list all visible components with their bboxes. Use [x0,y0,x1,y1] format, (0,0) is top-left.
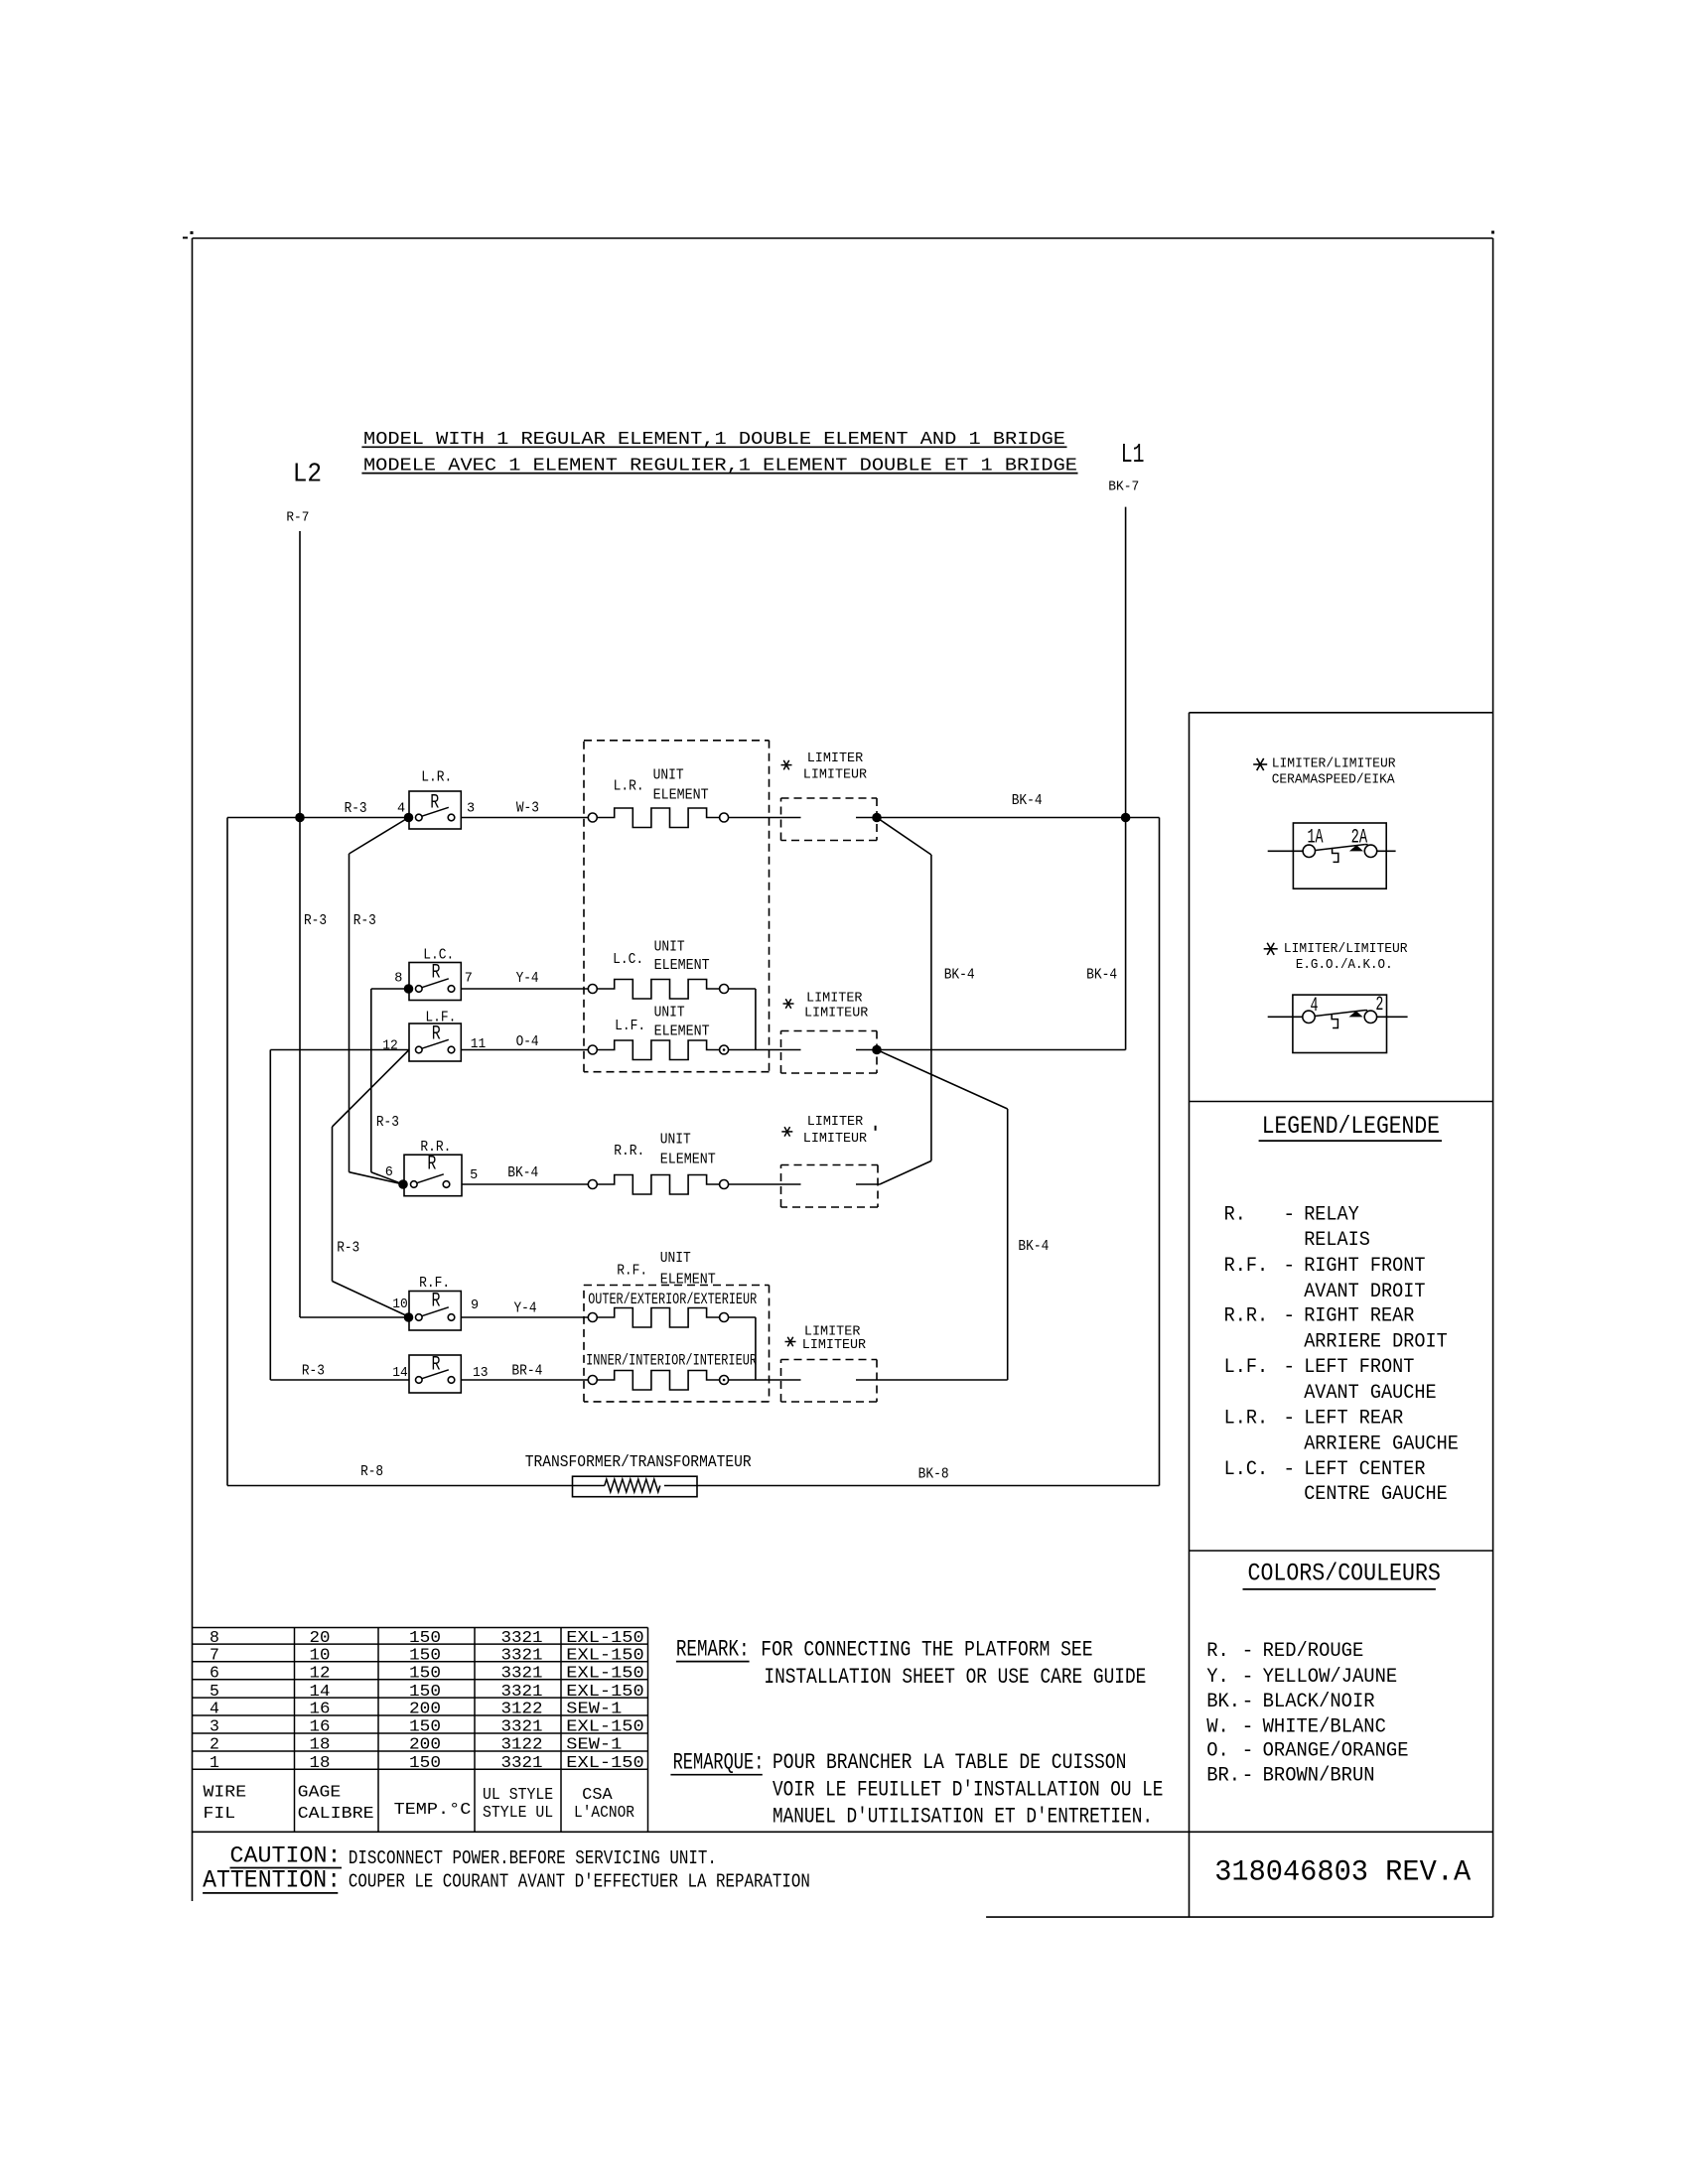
wire Y-4 row2 [461,988,588,990]
svg-text:Y-4: Y-4 [514,1300,537,1317]
wire BK-8 right [664,1485,1160,1487]
wire row6 left R-3 [270,1379,409,1381]
svg-text:150: 150 [409,1646,441,1665]
wire R-3 row1 relay to RR (diagonal+vertical) [350,818,409,1185]
svg-text:150: 150 [409,1664,441,1683]
svg-text:LIMITEUR: LIMITEUR [804,1006,869,1022]
pin 12 [382,1038,398,1053]
label R.F. relay [419,1275,450,1292]
svg-text:BK-4: BK-4 [944,967,975,984]
legend entry LEFT FRONT [1224,1356,1415,1379]
svg-text:L'ACNOR: L'ACNOR [574,1803,634,1822]
svg-text:BK-4: BK-4 [1086,967,1117,984]
svg-text:4: 4 [397,802,405,817]
svg-text:7: 7 [210,1646,219,1665]
label LIMITEUR row1 [803,766,868,782]
svg-text:R: R [432,1290,441,1312]
wire row1 left (R-3) [227,817,409,819]
label R in R.R. relay [427,1154,436,1176]
svg-text:R-3: R-3 [304,912,327,929]
svg-text:UNIT: UNIT [654,1005,685,1022]
svg-text:R: R [432,1354,441,1377]
wire right outer loop BK-8 side [1159,818,1161,1486]
label UNIT row3 [654,1005,685,1022]
label LIMITER/LIMITEUR fig1 [1272,756,1396,772]
label L.R. element [614,778,644,795]
svg-text:150: 150 [409,1628,441,1647]
wire label O-4 [516,1033,539,1050]
svg-text:O.: O. [1206,1740,1229,1763]
wire row2 feed (from LC dot down to RR) [371,989,409,1184]
tick mark row4 [875,1126,877,1131]
wire label Y-4 row2 [516,970,539,987]
remark text fr 2 [773,1777,1163,1803]
svg-text:10: 10 [392,1297,408,1312]
table row wire 4 [210,1700,622,1718]
svg-text:6: 6 [210,1664,219,1683]
limiter symbol fig1 [1268,823,1396,888]
pin 2 fig2 [1375,994,1383,1017]
table row wire 2 [210,1735,622,1754]
svg-text:-: - [1242,1740,1254,1763]
wire label R-3 row1 [345,800,367,817]
svg-text:LIMITER: LIMITER [806,990,863,1006]
svg-text:5: 5 [470,1168,478,1183]
wire label BK-8 [918,1466,949,1483]
svg-text:CENTRE GAUCHE: CENTRE GAUCHE [1304,1483,1448,1506]
svg-text:LEGEND/LEGENDE: LEGEND/LEGENDE [1262,1112,1440,1141]
pin 14 [392,1366,408,1381]
label LIMITER/LIMITEUR fig2 [1284,941,1408,957]
svg-text:L.R.: L.R. [1224,1408,1269,1431]
svg-text:3321: 3321 [501,1646,543,1665]
svg-text:BK-4: BK-4 [1018,1238,1049,1255]
svg-text:200: 200 [409,1735,441,1754]
label OUTER/EXTERIOR/EXTERIEUR [588,1291,757,1308]
svg-text:L.F.: L.F. [615,1018,645,1034]
svg-text:W-3: W-3 [516,800,539,817]
svg-text:COLORS/COULEURS: COLORS/COULEURS [1248,1559,1441,1587]
svg-text:1A: 1A [1308,827,1324,850]
legend entry ARRIERE GAUCHE [1304,1433,1459,1455]
label R in R.F. inner relay [432,1354,441,1377]
svg-text:LIMITEUR: LIMITEUR [803,766,868,782]
table header [204,1782,635,1823]
asterisk fig1 [1253,758,1267,770]
label UNIT row2 [654,938,685,955]
svg-text:-: - [1283,1255,1295,1278]
svg-text:R-3: R-3 [337,1240,359,1257]
svg-text:4: 4 [210,1700,219,1718]
svg-text:18: 18 [310,1735,331,1754]
svg-text:BK-4: BK-4 [1012,792,1043,809]
svg-text:R.R.: R.R. [614,1143,644,1160]
svg-text:L2: L2 [293,460,322,489]
remark text en 2 [764,1664,1146,1690]
label ELEMENT row3 [654,1023,710,1039]
remark text en 1 [761,1637,1092,1663]
label REMARQUE [670,1750,764,1777]
caution text en [349,1847,717,1869]
label CERAMASPEED/EIKA [1272,772,1395,788]
wire row3 left [270,1050,409,1381]
svg-text:R.: R. [1224,1204,1246,1227]
svg-text:CAUTION:: CAUTION: [230,1843,342,1869]
svg-text:EXL-150: EXL-150 [566,1717,643,1736]
svg-text:MANUEL D'UTILISATION ET D'ENTR: MANUEL D'UTILISATION ET D'ENTRETIEN. [773,1804,1153,1830]
label UNIT row5 [660,1250,691,1267]
limiter row3 (dashed) [781,1031,878,1074]
svg-text:-: - [1242,1765,1254,1788]
svg-text:INNER/INTERIOR/INTERIEUR: INNER/INTERIOR/INTERIEUR [586,1352,757,1370]
dashed box element RF [584,1286,770,1402]
svg-text:R.R.: R.R. [1224,1305,1269,1328]
right panel frame [1190,713,1493,1917]
wire label Y-4 row5 [514,1300,537,1317]
title line 1 [361,429,1066,450]
wire R-8 left [227,1485,605,1487]
heating element L.R. [588,808,728,828]
panel divider colors [1190,1550,1493,1552]
svg-text:L.R.: L.R. [614,778,644,795]
svg-text:RELAIS: RELAIS [1304,1229,1370,1252]
svg-text:EXL-150: EXL-150 [566,1753,643,1772]
relay L.C. [404,963,462,1001]
svg-text:ELEMENT: ELEMENT [654,1023,710,1039]
svg-text:-: - [1283,1356,1295,1379]
pin 5 [470,1168,478,1183]
label TRANSFORMER/TRANSFORMATEUR [525,1452,752,1471]
svg-text:TRANSFORMER/TRANSFORMATEUR: TRANSFORMER/TRANSFORMATEUR [525,1452,752,1471]
svg-text:BK.: BK. [1206,1691,1240,1713]
wire label BR-4 [511,1363,542,1380]
pin 4 fig2 [1311,995,1319,1018]
table row wire 5 [210,1682,644,1701]
svg-text:REMARK:: REMARK: [676,1637,750,1664]
svg-text:AVANT DROIT: AVANT DROIT [1304,1281,1425,1303]
label R in L.F. relay [432,1023,441,1045]
dashed box elements LR/LC/LF [584,741,770,1072]
wire label R-7 [286,510,309,525]
wire element to limiter row3 [729,1049,801,1051]
limiter row6 (dashed) [781,1360,878,1403]
pin 7 [465,971,473,986]
svg-text:3321: 3321 [501,1682,543,1701]
label ELEMENT row4 [660,1152,716,1168]
svg-text:4: 4 [1311,995,1319,1018]
label LIMITEUR row3 [804,1006,869,1022]
svg-text:LIMITER/LIMITEUR: LIMITER/LIMITEUR [1284,941,1408,957]
asterisk fig2 [1264,943,1278,955]
label L.R. relay [421,769,452,786]
pin 10 [392,1297,408,1312]
wire label BK-4 drop2 [1018,1238,1049,1255]
svg-text:9: 9 [471,1298,479,1313]
svg-text:FOR CONNECTING THE PLATFORM SE: FOR CONNECTING THE PLATFORM SEE [761,1637,1092,1663]
svg-text:R: R [430,791,439,814]
asterisk row6 [785,1337,796,1347]
label R in L.C. relay [432,961,441,984]
svg-text:ARRIERE GAUCHE: ARRIERE GAUCHE [1304,1433,1459,1455]
wire label BK-4 row4 [507,1164,538,1181]
svg-text:YELLOW/JAUNE: YELLOW/JAUNE [1263,1666,1398,1689]
svg-text:R.: R. [1206,1640,1229,1663]
pin 1A [1308,827,1324,850]
legend entry AVANT GAUCHE [1304,1382,1436,1405]
junction row1 @L1 bus [1121,813,1131,823]
svg-text:RED/ROUGE: RED/ROUGE [1263,1640,1364,1663]
label ELEMENT row5 [660,1271,716,1288]
svg-text:LIMITEUR: LIMITEUR [802,1337,867,1353]
label R.F. element [617,1263,647,1280]
svg-text:3: 3 [210,1717,219,1736]
wire label R-3 left bus [304,912,327,929]
label R in R.F. relay [432,1290,441,1312]
svg-text:STYLE UL: STYLE UL [483,1803,553,1822]
svg-text:Y.: Y. [1206,1666,1229,1689]
svg-text:E.G.O./A.K.O.: E.G.O./A.K.O. [1296,957,1393,973]
svg-text:-: - [1242,1715,1254,1738]
label L.F. relay [425,1010,456,1026]
panel divider legend [1190,1101,1493,1103]
label R.R. relay [420,1139,451,1156]
wire left outer loop R-8 side [226,818,228,1486]
wire O-4 row3 [461,1049,588,1051]
svg-text:LIMITER: LIMITER [807,751,864,766]
svg-text:LIMITER/LIMITEUR: LIMITER/LIMITEUR [1272,756,1396,772]
heating element L.C. [588,980,728,1000]
limiter row4 (dashed) [781,1165,881,1208]
svg-text:10: 10 [310,1646,331,1665]
svg-text:14: 14 [310,1682,331,1701]
label LIMITER row6 [804,1323,861,1339]
table row wire 7 [210,1646,644,1665]
junction row1 @L2 bus [295,813,305,823]
svg-text:-: - [1242,1691,1254,1713]
relay L.R. [404,791,462,829]
svg-text:R-3: R-3 [376,1114,399,1131]
svg-text:318046803 REV.A: 318046803 REV.A [1214,1855,1471,1889]
wire gauge table [193,1628,648,1833]
svg-text:3321: 3321 [501,1753,543,1772]
svg-text:R: R [432,1023,441,1045]
svg-text:L.F.: L.F. [1224,1356,1269,1379]
relay R.F. [404,1292,462,1331]
svg-text:ELEMENT: ELEMENT [660,1152,716,1168]
svg-text:6: 6 [385,1165,393,1180]
legend entry RIGHT REAR [1224,1305,1415,1328]
transformer [573,1476,698,1497]
label R in L.R. relay [430,791,439,814]
svg-text:16: 16 [310,1717,331,1736]
label REMARK [676,1637,750,1664]
svg-text:CERAMASPEED/EIKA: CERAMASPEED/EIKA [1272,772,1395,788]
svg-text:-: - [1242,1640,1254,1663]
wire BR-4 [461,1379,588,1381]
border frame [183,231,1494,1918]
node L1 [1121,441,1145,471]
svg-text:2A: 2A [1351,827,1368,850]
svg-text:DISCONNECT POWER.BEFORE SERVIC: DISCONNECT POWER.BEFORE SERVICING UNIT. [349,1847,717,1869]
svg-text:LEFT CENTER: LEFT CENTER [1304,1458,1425,1481]
svg-text:UNIT: UNIT [660,1250,691,1267]
svg-text:150: 150 [409,1717,441,1736]
svg-text:BK-8: BK-8 [918,1466,949,1483]
wire label BK-7 [1108,479,1139,494]
svg-text:Y-4: Y-4 [516,970,539,987]
svg-text:REMARQUE:: REMARQUE: [673,1750,765,1777]
svg-text:-: - [1283,1458,1295,1481]
svg-text:L1: L1 [1121,441,1145,471]
node L2 [293,460,322,489]
svg-text:-: - [1283,1204,1295,1227]
svg-text:EXL-150: EXL-150 [566,1628,643,1647]
wire W-3 [461,817,588,819]
svg-text:L.F.: L.F. [425,1010,456,1026]
svg-text:WHITE/BLANC: WHITE/BLANC [1263,1715,1386,1738]
svg-text:8: 8 [394,971,402,986]
svg-text:UNIT: UNIT [654,938,685,955]
svg-text:BLACK/NOIR: BLACK/NOIR [1263,1691,1375,1713]
wire label R-3 mid bus [353,912,376,929]
limiter symbol fig2 [1268,995,1408,1052]
pin 2A [1351,827,1368,850]
svg-text:3122: 3122 [501,1735,543,1754]
wire LC element out to LF join [729,989,756,1050]
svg-text:R-3: R-3 [302,1363,325,1380]
svg-text:UNIT: UNIT [653,766,684,783]
wire label BK-4 @L1 [1086,967,1117,984]
asterisk row4 [781,1127,792,1137]
label ELEMENT row2 [654,957,710,974]
legend entry RELAY [1224,1204,1359,1227]
remark text fr 3 [773,1804,1153,1830]
svg-text:UNIT: UNIT [660,1132,691,1149]
svg-text:OUTER/EXTERIOR/EXTERIEUR: OUTER/EXTERIOR/EXTERIEUR [588,1291,757,1308]
table row wire 8 [210,1628,644,1647]
wire row3 to L1 corner [877,1049,1126,1051]
label LIMITER row1 [807,751,864,766]
wire BK-4 row4 [462,1183,588,1185]
svg-text:BK-7: BK-7 [1108,479,1139,494]
wire RF outer to inner join [729,1317,756,1380]
svg-text:EXL-150: EXL-150 [566,1646,643,1665]
svg-text:R.F.: R.F. [419,1275,450,1292]
label L.F. element [615,1018,645,1034]
pin 13 [473,1366,489,1381]
svg-text:150: 150 [409,1682,441,1701]
label INNER/INTERIOR/INTERIEUR [586,1352,757,1370]
title line 2 [361,455,1077,476]
remark text fr 1 [773,1749,1126,1775]
svg-text:POUR BRANCHER LA TABLE DE CUIS: POUR BRANCHER LA TABLE DE CUISSON [773,1749,1126,1775]
svg-text:AVANT GAUCHE: AVANT GAUCHE [1304,1382,1436,1405]
limiter row1 (dashed) [781,798,878,841]
svg-text:2: 2 [210,1735,219,1754]
svg-text:LEFT REAR: LEFT REAR [1304,1408,1403,1431]
wire element to limiter row4 [729,1183,801,1185]
color entry WHITE/BLANC [1206,1715,1386,1738]
wire L1/BK-7 bus [1125,507,1127,1050]
svg-text:RIGHT FRONT: RIGHT FRONT [1304,1255,1425,1278]
label UNIT row4 [660,1132,691,1149]
color entry BLACK/NOIR [1206,1691,1374,1713]
svg-text:ELEMENT: ELEMENT [654,957,710,974]
svg-text:7: 7 [465,971,473,986]
legend entry RELAIS [1304,1229,1370,1252]
svg-text:COUPER LE COURANT AVANT D'EFFE: COUPER LE COURANT AVANT D'EFFECTUER LA R… [349,1871,810,1893]
svg-text:150: 150 [409,1753,441,1772]
heating element R.F. inner [588,1371,728,1391]
svg-text:R.F.: R.F. [1224,1255,1269,1278]
svg-text:GAGE: GAGE [298,1782,342,1801]
wire label BK-4 row1 [1012,792,1043,809]
wire label R-3 x335 [337,1240,359,1257]
svg-text:ATTENTION:: ATTENTION: [203,1866,341,1895]
svg-text:L.C.: L.C. [1224,1458,1269,1481]
svg-text:LEFT FRONT: LEFT FRONT [1304,1356,1414,1379]
svg-text:TEMP.°C: TEMP.°C [394,1800,472,1819]
label COLORS/COULEURS [1243,1559,1441,1589]
pin 8 [394,971,402,986]
label E.G.O./A.K.O. [1296,957,1393,973]
svg-text:8: 8 [210,1628,219,1647]
svg-text:20: 20 [310,1628,331,1647]
wire BK-4 drop to RF inner limiter [877,1050,1008,1381]
legend entry CENTRE GAUCHE [1304,1483,1448,1506]
svg-text:CSA: CSA [582,1785,613,1804]
junction row3 limiter out [872,1045,882,1055]
asterisk row3 [783,999,794,1009]
svg-text:R-7: R-7 [286,510,309,525]
label ATTENTION [203,1866,341,1895]
label LIMITER row3 [806,990,863,1006]
wire label R-8 [360,1463,383,1480]
wire element to limiter row6 [729,1379,801,1381]
legend entry ARRIERE DROIT [1304,1330,1448,1353]
svg-text:L.C.: L.C. [613,951,643,968]
svg-text:18: 18 [310,1753,331,1772]
svg-text:12: 12 [382,1038,398,1053]
label LIMITEUR row6 [802,1337,867,1353]
wire BK-4 drop to RR limiter [877,818,931,1185]
label ELEMENT row1 [653,786,709,803]
wire Y-4 row5 [461,1316,588,1318]
legend entry LEFT CENTER [1224,1458,1426,1481]
svg-text:R-8: R-8 [360,1463,383,1480]
pin 11 [471,1037,487,1052]
svg-text:EXL-150: EXL-150 [566,1664,643,1683]
svg-text:R: R [432,961,441,984]
wire L2/R-7 bus [300,531,410,1317]
relay R.R. [398,1155,462,1196]
relay R.F. inner [409,1355,461,1393]
svg-text:INSTALLATION SHEET OR USE CARE: INSTALLATION SHEET OR USE CARE GUIDE [764,1664,1146,1690]
svg-text:BR-4: BR-4 [511,1363,542,1380]
svg-text:BK-4: BK-4 [507,1164,538,1181]
pin 4 [397,802,405,817]
wire element to limiter row1 [729,817,801,819]
svg-text:BROWN/BRUN: BROWN/BRUN [1263,1765,1375,1788]
wire BK-4 row1 [877,817,1160,819]
svg-text:CALIBRE: CALIBRE [298,1804,374,1823]
svg-text:12: 12 [310,1664,331,1683]
junction row1 limiter out [872,813,882,823]
svg-text:ORANGE/ORANGE: ORANGE/ORANGE [1263,1740,1409,1763]
svg-text:3122: 3122 [501,1700,543,1718]
svg-text:LIMITEUR: LIMITEUR [803,1131,868,1147]
svg-text:LIMITER: LIMITER [807,1114,864,1130]
